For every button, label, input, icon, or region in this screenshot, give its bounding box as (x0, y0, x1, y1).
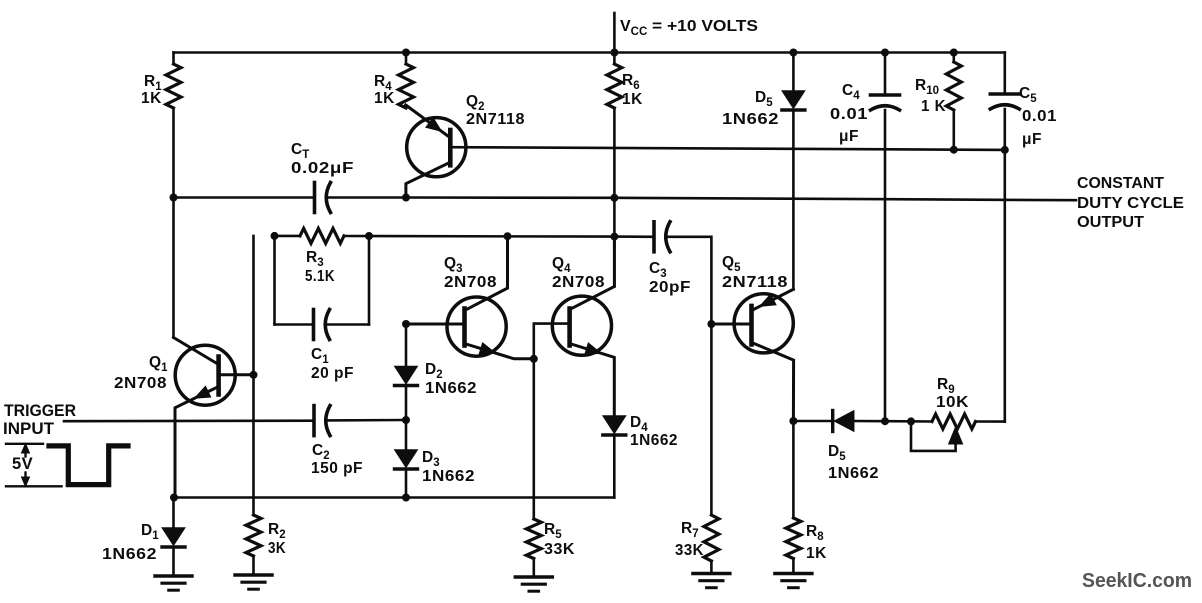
resistor R4 (399, 64, 414, 108)
svg-text:2N7118: 2N7118 (466, 111, 525, 128)
wire D4 bottom lead (613, 437, 616, 498)
label INPUT (3, 420, 54, 438)
transistor Q1 base bar (216, 357, 221, 395)
transistor Q2 base bar (448, 130, 453, 165)
capacitor C5 (990, 94, 1019, 109)
label D1 (141, 522, 159, 542)
label CT (291, 141, 309, 161)
wire Q2 collector lead (406, 163, 450, 198)
svg-text:0.02μF: 0.02μF (291, 160, 354, 177)
label R9 value (936, 394, 969, 411)
label D5 bottom (828, 443, 846, 463)
label Vcc = +10 VOLTS (620, 18, 758, 38)
wire C3 right lead (667, 237, 711, 324)
wire R5 bottom lead (532, 559, 535, 578)
capacitor C1 (314, 310, 330, 340)
label C5 (1019, 85, 1037, 105)
wire D1 leads (172, 498, 175, 577)
wire R8 column (792, 421, 795, 518)
wire C1 right branch (368, 236, 371, 325)
diode D5 (bottom) (833, 411, 854, 432)
node Q3 base-D2 junction (402, 320, 410, 328)
wire Q3 base lead (406, 323, 465, 326)
capacitor C3 (654, 222, 670, 252)
wire Q5 base lead (711, 323, 751, 326)
svg-text:20pF: 20pF (649, 279, 691, 296)
label CT value (291, 160, 354, 177)
label Q2 type (466, 111, 525, 128)
arrow Q3 emitter (479, 343, 495, 355)
resistor R9 (potentiometer) (932, 414, 976, 429)
wire R5 column (532, 359, 535, 519)
label R9 (937, 376, 955, 396)
svg-text:1K: 1K (622, 91, 643, 108)
ground below R7 (693, 574, 730, 588)
node R10 top rail junction (950, 49, 958, 57)
node C4 bottom junction (881, 417, 889, 425)
resistor R1 (166, 64, 181, 108)
node C4 top rail junction (881, 49, 889, 57)
ground below R5 (515, 577, 552, 591)
wire CT left lead (174, 196, 315, 199)
wire R3 left lead (275, 235, 301, 238)
node R9 wiper tap junction (907, 417, 915, 425)
wire Q4 collector lead (570, 237, 615, 310)
node D3 bottom rail junction (402, 494, 410, 502)
svg-text:2N708: 2N708 (114, 375, 167, 392)
label OUTPUT (1077, 214, 1145, 231)
watermark SeekIC.com (1082, 570, 1192, 592)
svg-text:1N662: 1N662 (630, 432, 678, 449)
svg-text:33K: 33K (675, 542, 704, 559)
wire D5b left lead (793, 420, 832, 423)
wire Q1 emitter lead (175, 387, 219, 498)
resistor R5 (526, 519, 541, 559)
svg-text:2N7118: 2N7118 (722, 274, 788, 291)
wire R8 bottom lead (792, 559, 795, 574)
svg-text:5V: 5V (12, 455, 33, 473)
wire D5b right lead (854, 420, 885, 423)
capacitor C2 (314, 406, 330, 436)
node Q5 emitter-R8 junction (789, 417, 797, 425)
wire R2 bottom lead (252, 556, 255, 575)
transistor Q5 base bar (749, 306, 754, 345)
resistor R7 (704, 515, 719, 561)
label Q2 (466, 93, 484, 113)
node R10 bottom junction (950, 146, 958, 154)
arrow R9 wiper (949, 427, 963, 444)
wire D5 column lower / Q5 emitter column (792, 112, 795, 289)
label C1 value (311, 365, 354, 382)
transistor Q1 circle (175, 345, 235, 405)
svg-text:1N662: 1N662 (422, 468, 475, 485)
svg-text:2N708: 2N708 (552, 274, 605, 291)
wire R7 bottom lead (710, 561, 713, 574)
label C3 value (649, 279, 691, 296)
label Q1 type (114, 375, 167, 392)
label D3 value (422, 468, 475, 485)
arrow Q1 emitter (195, 386, 211, 398)
label R5 (544, 521, 562, 541)
wire R6 leads column (613, 53, 616, 287)
transistor Q4 circle (552, 296, 611, 355)
label C3 (649, 260, 667, 280)
label D4 value (630, 432, 678, 449)
capacitor C4 (871, 95, 900, 110)
resistor R6 (607, 64, 622, 108)
wire Q2 base line (450, 147, 1005, 150)
label R3 value (305, 268, 335, 285)
svg-text:TRIGGER: TRIGGER (4, 402, 76, 420)
node Q1 base junction (250, 371, 258, 379)
svg-text:1K: 1K (806, 545, 827, 562)
label R6 value (622, 91, 643, 108)
node R3 right junction (365, 232, 373, 240)
svg-text:2N708: 2N708 (444, 274, 497, 291)
label R2 value (268, 540, 286, 557)
diode D1 (162, 528, 185, 547)
label R7 (681, 520, 699, 540)
resistor R10 (946, 62, 961, 110)
wire C4 top lead (884, 53, 887, 96)
node C2-D2-D3 junction (402, 416, 410, 424)
wire top supply rail (174, 51, 1005, 54)
resistor R3 (300, 228, 344, 243)
svg-text:OUTPUT: OUTPUT (1077, 214, 1145, 231)
label R8 (806, 523, 824, 543)
svg-text:0.01: 0.01 (1022, 108, 1057, 125)
label 5V (12, 455, 33, 473)
label R7 value (675, 542, 704, 559)
label D5 bottom value (828, 465, 879, 482)
svg-text:= +10 VOLTS: = +10 VOLTS (652, 18, 758, 35)
wire Q4 emitter lead (570, 344, 615, 417)
label R10 value (921, 98, 946, 115)
ground below R8 (775, 574, 812, 588)
wire C1 left branch (273, 236, 276, 325)
label R4 (374, 73, 392, 93)
label R6 (622, 72, 640, 92)
svg-text:DUTY CYCLE: DUTY CYCLE (1077, 195, 1184, 212)
arrow Q5 emitter (760, 294, 776, 306)
label Q5 type (722, 274, 788, 291)
wire bottom rail (174, 496, 615, 499)
label DUTY CYCLE (1077, 195, 1184, 212)
wire C5 top lead (1003, 53, 1006, 95)
node R6-collector line junction (610, 233, 618, 241)
label D5 top value (722, 111, 779, 128)
label R10 (915, 77, 939, 97)
diode D2 (395, 367, 418, 386)
node R1-CT junction (170, 194, 178, 202)
label C1 (311, 346, 329, 366)
transistor Q3 base bar (462, 309, 467, 346)
label R1 (144, 73, 162, 93)
node D5 top rail junction (789, 49, 797, 57)
svg-text:33K: 33K (544, 541, 575, 558)
svg-text:150 pF: 150 pF (311, 460, 363, 477)
wire Q2 emitter lead from R4 (406, 105, 450, 137)
wire C5 bottom column (1003, 109, 1006, 422)
svg-text:20 pF: 20 pF (311, 365, 354, 382)
svg-text:1N662: 1N662 (102, 546, 157, 563)
ground below R2 (235, 575, 272, 589)
wire C4 bottom column (884, 110, 887, 421)
wire Q3 emitter lead (465, 344, 534, 359)
svg-text:5.1K: 5.1K (305, 268, 335, 285)
svg-text:1N662: 1N662 (425, 380, 477, 397)
wire D2 leads (405, 324, 408, 420)
arrow Q2 emitter (426, 118, 442, 132)
node CT-Q2 emitter junction (402, 194, 410, 202)
label R2 (268, 521, 286, 541)
label D1 value (102, 546, 157, 563)
resistor R2 (246, 515, 261, 556)
label Q5 (722, 254, 741, 274)
node R6 top rail junction (610, 49, 618, 57)
svg-text:SeekIC.com: SeekIC.com (1082, 570, 1192, 592)
node Q3 emitter junction (530, 355, 538, 363)
transistor Q3 circle (447, 297, 506, 356)
wire Q3 collector lead (465, 236, 508, 310)
label C2 value (311, 460, 363, 477)
label R5 value (544, 541, 575, 558)
svg-text:1K: 1K (141, 90, 162, 107)
wire Q4 base branch (534, 324, 570, 359)
node Q5 base junction (707, 320, 715, 328)
label CONSTANT (1077, 175, 1165, 192)
node R3 left junction (271, 232, 279, 240)
wire Q1 base lead (219, 373, 254, 376)
node Q3 collector top junction (504, 232, 512, 240)
label D4 (630, 414, 648, 434)
transistor Q4 base bar (567, 309, 572, 346)
svg-text:INPUT: INPUT (3, 420, 54, 438)
wire R1 bottom / Q1 collector column (172, 108, 175, 338)
wire R2 column (252, 236, 255, 515)
wire D5 column upper (792, 53, 795, 92)
label TRIGGER (4, 402, 76, 420)
label D5 top (755, 89, 773, 109)
node Q1 emitter rail junction (170, 494, 178, 502)
wire R9 right lead (976, 420, 1005, 423)
wire CT right lead (328, 196, 407, 199)
transistor Q5 circle (734, 294, 793, 353)
svg-text:0.01: 0.01 (830, 106, 868, 123)
svg-text:1N662: 1N662 (722, 111, 779, 128)
wire R7 column (710, 324, 713, 515)
resistor R8 (786, 518, 801, 559)
wire R3 right lead (344, 235, 614, 238)
wire R1 top lead (172, 53, 175, 65)
label R3 (306, 249, 324, 269)
label D2 value (425, 380, 477, 397)
wire C1 left lead (275, 323, 314, 326)
label C2 (312, 442, 330, 462)
waveform 5V pulse (6, 444, 128, 487)
svg-text:CONSTANT: CONSTANT (1077, 175, 1165, 192)
label D3 (422, 449, 440, 469)
node C5 line junction (1001, 146, 1009, 154)
wire Q5 emitter lead (752, 289, 794, 310)
wire C2 right lead (327, 419, 406, 422)
label Q4 type (552, 274, 605, 291)
svg-text:1 K: 1 K (921, 98, 946, 115)
svg-text:10K: 10K (936, 394, 969, 411)
wire C3 left lead (614, 235, 654, 238)
label Q3 type (444, 274, 497, 291)
label Q1 (149, 354, 168, 374)
wire to R9 (885, 420, 932, 423)
ground below D1 (155, 576, 192, 590)
wire constant duty cycle output line (406, 198, 1076, 201)
diode D4 (603, 416, 626, 435)
label C5 value (1022, 108, 1057, 148)
label R1 value (141, 90, 162, 107)
svg-text:μF: μF (839, 128, 859, 145)
wire Vcc stem (613, 13, 616, 53)
wire D3 leads (405, 420, 408, 498)
diode D5 (top) (782, 91, 805, 110)
wire R10 leads (952, 53, 955, 150)
label R8 value (806, 545, 827, 562)
diode D3 (395, 450, 418, 469)
label Q4 (552, 255, 571, 275)
label Q3 (444, 255, 462, 275)
node R6-output junction (610, 194, 618, 202)
arrow Q4 emitter (585, 343, 601, 355)
label C4 (842, 82, 860, 102)
node R4 top rail junction (402, 49, 410, 57)
label D2 (425, 361, 443, 381)
label C4 value (830, 106, 868, 145)
wire R4 top lead (405, 53, 408, 65)
wire Q1 collector lead (174, 338, 219, 365)
wire trigger input line (64, 419, 314, 422)
svg-text:1K: 1K (374, 90, 395, 107)
wire R9 wiper bracket (911, 421, 956, 451)
svg-text:1N662: 1N662 (828, 465, 879, 482)
svg-text:3K: 3K (268, 540, 286, 557)
wire C1 right lead (327, 323, 370, 326)
capacitor CT (315, 183, 331, 213)
wire Q5 collector lead (752, 343, 794, 422)
transistor Q2 circle (407, 118, 466, 177)
svg-text:μF: μF (1022, 131, 1042, 148)
label R4 value (374, 90, 395, 107)
